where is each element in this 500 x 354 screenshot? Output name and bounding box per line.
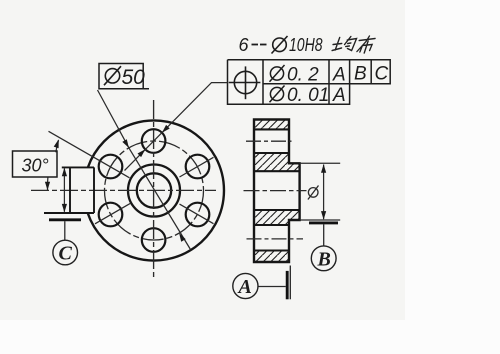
svg-text:A: A bbox=[332, 85, 346, 106]
wire: diagonal centerline lower-left hole bbox=[95, 203, 131, 224]
wire: hub diameter dimension line bbox=[323, 165, 325, 220]
svg-text:B: B bbox=[354, 64, 367, 85]
node: center bore circle bbox=[137, 173, 171, 207]
svg-text:0. 01: 0. 01 bbox=[287, 85, 329, 106]
wire: frame leader to top hole bbox=[162, 83, 228, 133]
svg-text:30°: 30° bbox=[22, 156, 49, 176]
wire: diagonal centerline upper-right hole bbox=[180, 157, 214, 177]
wire: hub bottom extension line bbox=[300, 219, 341, 221]
wire: datum C leader bbox=[64, 221, 66, 240]
dia symbol of hub dimension bbox=[308, 188, 318, 198]
wire: 30 deg dimension arc lower stub bbox=[46, 177, 48, 190]
node: bolt hole 2 bbox=[99, 155, 123, 179]
svg-text:C: C bbox=[375, 64, 389, 85]
node: datum C circle bbox=[53, 240, 78, 265]
wire: section bottom hole centerline bbox=[247, 238, 304, 240]
node: section view outline bbox=[254, 120, 300, 263]
node: datum A circle bbox=[233, 273, 258, 298]
wire: section top hole centerline bbox=[246, 140, 292, 142]
chinese char bu bbox=[357, 36, 376, 53]
wire: section internal edges bbox=[254, 129, 300, 250]
svg-text:C: C bbox=[59, 243, 73, 265]
dia symbol row1 bbox=[270, 67, 283, 80]
tolerance frame borders bbox=[228, 60, 391, 105]
wire: dia50 leader bbox=[98, 90, 129, 148]
wire: diagonal centerline upper-left hole bbox=[49, 131, 130, 178]
wire: horizontal centerline (front view) bbox=[31, 189, 216, 191]
node: 30 deg label box bbox=[13, 151, 58, 177]
node: hub outer circle bbox=[128, 165, 180, 217]
wire: outer flange circle (front view) bbox=[88, 120, 224, 260]
svg-text:0. 2: 0. 2 bbox=[287, 65, 319, 86]
svg-text:B: B bbox=[317, 249, 331, 271]
svg-text:50: 50 bbox=[122, 66, 146, 89]
dia symbol of hole note bbox=[273, 38, 287, 52]
node: dia50 label box bbox=[99, 64, 149, 89]
node: bolt hole 1 bbox=[142, 129, 166, 153]
wire: hole diameter line through top hole bbox=[125, 133, 162, 171]
wire: dia50 dimension line across bolt circle bbox=[129, 148, 191, 250]
wire: vertical centerline (front view) bbox=[153, 100, 155, 279]
node: bolt hole 6 bbox=[186, 155, 210, 179]
node: left boss rectangle bbox=[44, 167, 94, 213]
dia symbol of dia50 bbox=[105, 69, 119, 83]
wire: diagonal centerline lower-right hole bbox=[180, 204, 214, 224]
dia symbol row2 bbox=[270, 87, 283, 100]
wire: datum A extension line bbox=[289, 266, 291, 300]
datum C thick bar bbox=[49, 218, 81, 221]
position symbol in frame bbox=[234, 71, 256, 93]
wire: datum B leader bbox=[323, 224, 325, 246]
wire: hub top extension line bbox=[300, 162, 341, 164]
datum A thick bar bbox=[286, 271, 289, 299]
wire: 30 deg dimension arc upper stub bbox=[56, 140, 59, 152]
dashes bbox=[252, 44, 259, 46]
wire: bolt circle (dashed) bbox=[105, 141, 204, 240]
svg-text:6: 6 bbox=[239, 35, 250, 55]
wire: datum A leader bbox=[258, 286, 286, 288]
chinese char jun bbox=[332, 36, 376, 53]
hatch: section cut areas bbox=[254, 120, 289, 130]
wire: boss height dimension line bbox=[63, 169, 65, 212]
node: datum B circle bbox=[311, 246, 336, 271]
svg-text:A: A bbox=[237, 276, 252, 298]
node: bolt hole 5 bbox=[186, 203, 210, 227]
wire: section axis centerline bbox=[244, 190, 307, 192]
svg-text:A: A bbox=[332, 65, 346, 86]
svg-text:10H8: 10H8 bbox=[289, 35, 323, 55]
node: bolt hole 4 bbox=[142, 228, 166, 252]
datum B thick bar bbox=[309, 221, 338, 224]
node: bolt hole 3 bbox=[99, 203, 123, 227]
